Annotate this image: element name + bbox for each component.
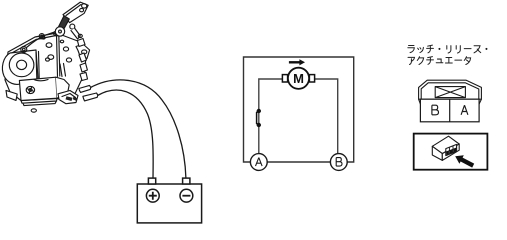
motor M (282, 68, 314, 89)
connector pin table (420, 99, 479, 122)
terminal B (330, 154, 347, 171)
crimp terminal upper (79, 85, 91, 92)
dot (485, 48, 487, 50)
su (474, 46, 481, 53)
link circle (70, 24, 75, 29)
dot (438, 48, 440, 50)
circuit outer loop (244, 57, 354, 162)
iso connector left face (432, 146, 442, 160)
connector face housing (419, 80, 482, 104)
small tsu (418, 47, 424, 52)
rotation arrow (289, 59, 305, 65)
ri (456, 46, 460, 53)
actuator body outline (5, 33, 86, 101)
right clips (77, 39, 85, 47)
interior detail lines (34, 52, 66, 81)
circuit inner wires (259, 79, 338, 154)
actuator boss outer circle (9, 53, 34, 77)
battery (137, 178, 201, 223)
long dash (455, 59, 462, 61)
body crease lines (57, 34, 60, 77)
front slab (19, 77, 57, 100)
svg-text:M: M (293, 71, 304, 86)
ra (408, 46, 414, 53)
actuator assembly (2, 2, 97, 112)
hook piece (76, 44, 90, 59)
bottom ellipse (31, 109, 36, 112)
insert arrow (455, 155, 474, 167)
slab bottom double edges (21, 98, 57, 105)
slab right extension (56, 77, 69, 98)
label: latch release actuator (katakana drawn as strokes) (408, 45, 488, 53)
link bar (71, 28, 80, 39)
connector shroud (58, 91, 78, 104)
connector symbol on wire (257, 109, 261, 127)
terminal block (446, 144, 457, 155)
terminal dark cells (446, 148, 456, 155)
chi (427, 57, 434, 65)
ku (417, 57, 423, 65)
screw (26, 86, 34, 93)
battery terminal right (183, 178, 190, 184)
icon box (414, 134, 488, 170)
ta (464, 57, 470, 65)
battery plus (146, 189, 159, 202)
actuator left lobe (2, 50, 38, 84)
wire to battery negative (91, 80, 186, 178)
lock x-box (435, 87, 465, 98)
actuator boss inner circle (17, 60, 27, 69)
battery terminal left (148, 178, 155, 184)
a (408, 57, 414, 64)
terminal grid lines (446, 146, 457, 154)
top grommet (54, 31, 60, 36)
crimp terminal lower (83, 93, 98, 101)
hatched lever (58, 16, 69, 30)
body top edge inner line (10, 36, 56, 55)
ri (447, 46, 451, 53)
battery minus (180, 189, 193, 202)
washer ring A (21, 47, 27, 53)
left lower flap (6, 90, 17, 100)
small yu (436, 59, 443, 63)
long dash (464, 48, 471, 50)
chi (427, 45, 434, 53)
actuator top face holes (46, 43, 52, 48)
wire to battery positive (98, 90, 154, 178)
washer ring B (39, 34, 44, 39)
iso connector right face (442, 144, 459, 160)
rod wire (27, 32, 56, 48)
e (445, 58, 452, 63)
pivot disc (55, 27, 64, 36)
iso connector top face (432, 136, 459, 160)
top bracket (63, 2, 88, 23)
terminal A (250, 154, 267, 171)
terminal dark marks (66, 96, 73, 101)
